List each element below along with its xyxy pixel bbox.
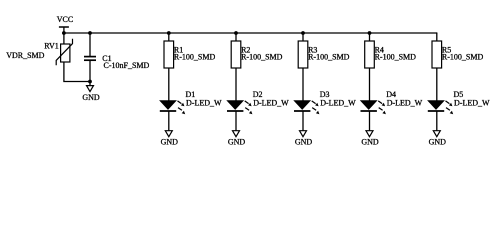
LED D2 [227, 101, 252, 115]
svg-text:R-100_SMD: R-100_SMD [174, 52, 216, 61]
svg-text:GND: GND [361, 137, 379, 146]
svg-text:GND: GND [161, 137, 179, 146]
node ground junction [88, 80, 92, 84]
svg-text:R-100_SMD: R-100_SMD [241, 52, 283, 61]
svg-text:RV1: RV1 [44, 42, 58, 51]
wire R5 to D5 [436, 68, 438, 101]
wire D1 to ground [168, 111, 170, 131]
wire bus to R3 [302, 33, 304, 41]
svg-text:GND: GND [82, 93, 100, 102]
ground under D2 [228, 131, 246, 147]
varistor RV1 [56, 39, 72, 65]
wire top bus [64, 32, 437, 34]
ground under D1 [161, 131, 179, 147]
node C1 junction [88, 31, 92, 35]
resistor R3 [298, 41, 308, 68]
node VCC junction [62, 31, 66, 35]
resistor R4 [365, 41, 375, 68]
node R4 junction [368, 31, 372, 35]
LED D1 [160, 101, 185, 115]
ground left [82, 86, 100, 102]
svg-text:D-LED_W: D-LED_W [320, 98, 356, 107]
ground under D4 [361, 131, 379, 147]
svg-text:D-LED_W: D-LED_W [186, 98, 222, 107]
svg-text:VDR_SMD: VDR_SMD [6, 51, 44, 60]
svg-text:C-10nF_SMD: C-10nF_SMD [104, 61, 150, 70]
ground under D5 [429, 131, 447, 147]
LED D4 [361, 101, 386, 115]
wire R4 to D4 [369, 68, 371, 101]
wire R1 to D1 [168, 68, 170, 101]
svg-text:D-LED_W: D-LED_W [253, 98, 289, 107]
ground under D3 [295, 131, 313, 147]
resistor R2 [231, 41, 241, 68]
svg-text:R-100_SMD: R-100_SMD [442, 52, 484, 61]
svg-text:R-100_SMD: R-100_SMD [308, 52, 350, 61]
resistor R5 [432, 41, 442, 68]
node R3 junction [301, 31, 305, 35]
svg-text:D-LED_W: D-LED_W [454, 98, 490, 107]
wire C1 bottom [89, 60, 91, 85]
node R2 junction [234, 31, 238, 35]
capacitor C1 [84, 57, 96, 61]
wire VCC to RV1 [63, 33, 65, 44]
wire bus to R2 [235, 33, 237, 41]
wire D3 to ground [302, 111, 304, 131]
svg-text:VCC: VCC [57, 15, 73, 24]
LED D5 [428, 101, 453, 115]
svg-text:R-100_SMD: R-100_SMD [375, 52, 417, 61]
wire bus to R1 [168, 33, 170, 41]
wire C1 top [89, 33, 91, 56]
wire bus to R4 [369, 33, 371, 41]
svg-text:D-LED_W: D-LED_W [387, 98, 423, 107]
wire RV1 bottom to ground net [64, 62, 90, 82]
LED D3 [294, 101, 319, 115]
wire D4 to ground [369, 111, 371, 131]
svg-text:GND: GND [429, 137, 447, 146]
svg-text:GND: GND [295, 137, 313, 146]
wire D5 to ground [436, 111, 438, 131]
wire R2 to D2 [235, 68, 237, 101]
wire D2 to ground [235, 111, 237, 131]
svg-text:GND: GND [228, 137, 246, 146]
resistor R1 [164, 41, 174, 68]
wire R3 to D3 [302, 68, 304, 101]
node R1 junction [167, 31, 171, 35]
node R5 junction [436, 32, 437, 33]
power VCC [57, 15, 73, 33]
wire bus to R5 [436, 33, 438, 41]
